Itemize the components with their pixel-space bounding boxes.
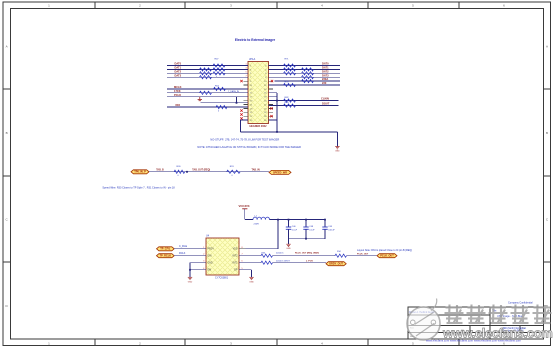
svg-text:A: A [546,45,548,49]
junction cap C49 top [324,219,326,221]
svg-text:Company Confidential: Company Confidential [508,302,533,305]
title block (decorative) [408,307,544,339]
svg-text:JP1A: JP1A [249,57,255,61]
resistor R53 [200,91,212,94]
svg-text:SPEED_WR: SPEED_WR [273,171,287,174]
resistor R48 [213,68,225,71]
svg-text:TP6_IN_P: TP6_IN_P [134,171,146,174]
svg-text:8: 8 [242,247,243,249]
svg-text:GND: GND [249,281,254,283]
port SPEED_WR [269,170,291,174]
wire INT2 out [239,255,261,257]
svg-text:0.1uF: 0.1uF [309,229,315,231]
no-connect pin 23 [240,109,242,111]
wire net DAT1 right [269,68,341,70]
wire to PCLK_OUT port [347,255,378,257]
svg-text:GND: GND [335,151,340,153]
svg-text:Electric to External Imager: Electric to External Imager [235,38,276,42]
junction bus/rail [276,131,278,133]
resistor R84 [284,104,296,107]
svg-text:220R: 220R [254,223,260,225]
resistor R30 [174,170,185,173]
wire net RCLK [174,255,206,257]
resistor R82 [284,99,296,102]
no-connect pin 28 [270,115,272,117]
svg-text:HEADER 20X2: HEADER 20X2 [249,125,267,128]
resistor R52 [214,87,226,90]
wire net DAT2 left [167,72,248,74]
svg-text:TP_CFIL: TP_CFIL [160,248,171,251]
svg-text:DAT3: DAT3 [322,73,329,77]
resistor R49 [213,72,225,75]
no-connect pin 27 [240,117,242,119]
svg-text:T_DATA_IN: T_DATA_IN [228,90,239,93]
no-connect pin 9 [240,80,242,82]
wire net 220 [269,84,341,86]
svg-text:MCLK: MCLK [174,85,182,89]
junction speed [186,171,188,173]
wire net DAT1 left [167,68,248,70]
svg-text:PCLK_OUT: PCLK_OUT [357,254,369,256]
svg-text:DP: DP [234,270,238,272]
wire speed net [149,171,269,173]
wire ground bus [240,131,337,133]
wire to GND caps [288,239,290,244]
svg-text:GND: GND [188,281,193,283]
svg-text:VDD: VDD [233,249,238,251]
svg-text:GND: GND [286,248,291,250]
svg-text:DAT0: DAT0 [322,62,329,66]
wire stub to rail [269,96,278,98]
svg-text:5: 5 [246,71,247,73]
resistor R72 [284,68,296,71]
wire rail to VDD pin [277,220,279,249]
svg-text:0.1uF: 0.1uF [292,229,298,231]
svg-text:7: 7 [246,75,247,77]
svg-text:PCLK: PCLK [174,93,181,97]
wire INT1 out [239,262,261,264]
resistor R71 [284,64,296,67]
resistor R75 [302,72,314,75]
wire rail right of JP1A [276,93,278,132]
svg-text:DOUT: DOUT [322,102,330,106]
svg-text:DAT3: DAT3 [175,73,182,77]
svg-text:RCLK_OUT (REQ_WAIT): RCLK_OUT (REQ_WAIT) [295,252,319,255]
svg-text:DRDY_OUT: DRDY_OUT [329,263,343,266]
wire bus to GND [336,132,338,147]
wire net DIO [167,106,248,108]
inductor L1 [253,217,270,219]
test point TP3 [199,97,201,100]
junction cap C48 top [305,219,307,221]
wire to R34 [273,255,336,257]
svg-text:TP_RCLK: TP_RCLK [160,255,172,258]
svg-text:DAT2: DAT2 [322,69,329,73]
svg-text:220: 220 [322,81,327,85]
svg-text:J_POS: J_POS [306,260,313,262]
svg-text:3: 3 [246,68,247,70]
wire net DAT3 right [269,76,341,78]
connector JP1A [244,62,274,124]
wire pin 29 down [240,119,248,121]
svg-text:DAT1: DAT1 [175,66,182,70]
wire net MCLK [167,88,248,90]
svg-text:GND: GND [208,263,213,265]
svg-text:220A: 220A [322,77,328,81]
svg-text:CLKIN: CLKIN [321,97,329,101]
resistor R34 [335,254,347,257]
svg-text:0.01uF: 0.01uF [328,229,335,231]
wire branch to pin 19 [201,102,248,104]
svg-text:INT2: INT2 [233,256,239,258]
svg-text:NO-STUFF: J7B, J47-74, 75-78,: NO-STUFF: J7B, J47-74, 75-78, 8 LIM FOR … [210,138,279,142]
wire to DRDY port [273,262,327,264]
port TP6_IN_P [131,170,149,174]
no-connect pin 10 [271,80,273,82]
wire stub to rail [269,119,278,121]
port RCLK [157,254,175,258]
svg-text:Speed Wire: R30 Closes to TP S: Speed Wire: R30 Closes to TP Style 7 , R… [102,187,175,190]
resistor R44 [200,72,212,75]
svg-text:A: A [6,45,8,49]
svg-text:INT1: INT1 [233,263,239,265]
capacitor C46 [286,220,298,239]
svg-text:B: B [6,131,8,135]
wire net DAT0 left [167,65,248,67]
svg-text:TAB_OUT (REQ): TAB_OUT (REQ) [192,168,210,171]
svg-text:PCLK_OUT: PCLK_OUT [380,255,394,258]
svg-text:17CK: 17CK [174,89,181,93]
svg-text:NOTE: ATTACHED LAGATCH 4N STIT: NOTE: ATTACHED LAGATCH 4N STITCH BOARD, … [197,145,301,149]
wire net 220A [275,80,341,82]
svg-text:PRDY: PRDY [208,249,215,251]
wire net 17CK [167,92,248,94]
no-connect pin 24 [270,107,272,109]
wire GND pins left [190,262,206,264]
resistor R73 [284,72,296,75]
svg-text:DAT1: DAT1 [322,66,329,70]
svg-text:DM: DM [208,270,212,272]
wire net DOUT [269,105,339,107]
svg-text:DIO: DIO [176,103,181,107]
junction [236,102,238,104]
wire net C_FILE [174,248,206,250]
resistor R56 [216,106,227,109]
resistor R47 [213,64,225,67]
no-connect pin 25 [240,113,242,115]
resistor R35 [261,261,273,264]
svg-text:220ohm DRDY: 220ohm DRDY [276,260,291,262]
wire cap bottom bus [289,238,326,240]
wire net DAT2 right [269,72,341,74]
svg-text:RCLK: RCLK [179,252,186,255]
svg-text:1: 1 [246,64,247,66]
svg-text:TAB_IN: TAB_IN [252,168,260,171]
svg-text:DAT0: DAT0 [175,62,182,66]
svg-text:Layout Note: R34 to placed Clo: Layout Note: R34 to placed Close to IC p… [357,249,412,252]
svg-text:VCC3V3: VCC3V3 [239,204,250,208]
wire VDD rail [270,219,326,221]
resistor R78 [284,83,296,86]
resistor R31 [227,170,241,173]
op-amp U4 body [200,238,246,275]
svg-text:www.elecfans.com www.elecfans: www.elecfans.com www.elecfans.com www.el… [426,338,522,342]
wire stub to rail [269,92,278,94]
wire net DAT3 left [167,76,248,78]
watermark (decorative) [407,299,440,341]
ground GND U4 right [249,276,253,278]
capacitor C49 [322,220,335,239]
junction rail [277,219,279,221]
capacitor C48 [303,220,315,239]
svg-text:B: B [546,131,548,135]
svg-text:C_FILE: C_FILE [179,245,188,248]
svg-text:220ohm: 220ohm [276,253,284,255]
resistor R76 [302,76,314,79]
junction cap C46 top [288,219,290,221]
wire net DAT0 right [269,65,341,67]
svg-text:DAT2: DAT2 [175,69,182,73]
svg-text:CY7C63801: CY7C63801 [215,277,229,280]
resistor R45 [200,76,212,79]
resistor R74 [302,68,314,71]
resistor R33 [261,254,273,257]
ground GND top section [335,146,339,148]
port PCLK_OUT [377,254,397,258]
wire VCC drop [244,209,246,220]
ground GND U4 left [188,276,192,278]
wire DP to gnd right [239,269,252,271]
port DRDY_OUT [326,262,346,266]
junction rail CLKIN [276,100,278,102]
svg-text:TAB_B: TAB_B [156,168,164,171]
junction gnd left [189,269,191,271]
port C_FILE [157,247,175,251]
wire net CLKIN [269,100,339,102]
resistor R77 [302,80,314,83]
svg-text:DIN: DIN [208,256,212,258]
resistor R43 [200,68,212,71]
wire net PCLK [167,96,248,98]
ground GND caps [286,243,290,245]
